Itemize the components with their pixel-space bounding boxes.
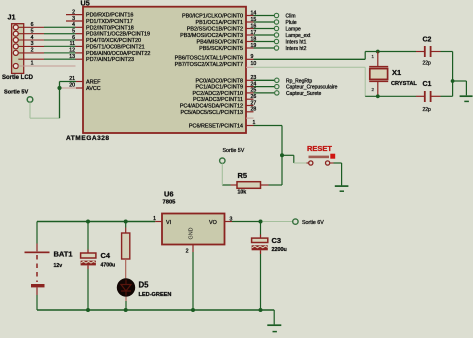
wire Sortie5V right	[30, 117, 60, 119]
U5 pin 6 (PD4) stub	[75, 39, 83, 41]
wire pin 24 to terminal	[254, 86, 276, 88]
U5 pin 5 (PD3) stub	[75, 33, 83, 35]
wire crystal bottom horizontal	[365, 95, 416, 97]
ground (crystal)	[460, 95, 473, 97]
wire XTAL2 to crystal (faint)	[254, 66, 366, 68]
svg-text:PD7/AIN1/PCINT23: PD7/AIN1/PCINT23	[86, 57, 134, 63]
wire bus to ground	[273, 310, 275, 324]
svg-text:28: 28	[251, 107, 257, 113]
U5 pin 28 (PC5) stub	[246, 111, 254, 113]
wire Sortie5V down	[29, 102, 31, 118]
wire J1 pin 1 to U5 (faint)	[18, 65, 75, 67]
terminal node Clim	[274, 13, 278, 17]
capacitor C3	[260, 222, 262, 235]
svg-text:VI: VI	[166, 220, 171, 226]
junction C3 top	[259, 220, 263, 224]
svg-text:PB5/SCK/PCINT5: PB5/SCK/PCINT5	[199, 46, 243, 52]
svg-text:PB3/MOSI/OC2A/PCINT3: PB3/MOSI/OC2A/PCINT3	[180, 33, 243, 39]
crystal X1 pin 2	[377, 81, 379, 96]
wire RESET vertical	[281, 126, 283, 186]
wire ground bus bottom	[37, 309, 274, 311]
svg-text:PD5/T1/OC0B/PCINT21: PD5/T1/OC0B/PCINT21	[86, 44, 145, 50]
svg-text:Inters ht1: Inters ht1	[286, 40, 307, 46]
svg-text:PC5/ADC5/SCL/PCINT13: PC5/ADC5/SCL/PCINT13	[180, 110, 243, 116]
junction right rail	[451, 79, 455, 83]
junction crystal pin1	[376, 50, 380, 54]
svg-text:3: 3	[72, 16, 75, 22]
U5 pin 16 (PB2) stub	[246, 28, 254, 30]
wire pin 17 to terminal	[254, 34, 275, 36]
wire C2 to right rail	[441, 51, 453, 53]
wire pin 19 to terminal	[254, 47, 275, 49]
U5 pin 11 (PD5) stub	[75, 45, 83, 47]
svg-text:Lampe_ext: Lampe_ext	[286, 33, 311, 39]
svg-text:Sortie 6V: Sortie 6V	[302, 220, 324, 226]
wire J1 pin 2 to U5 (green part)	[44, 52, 76, 54]
svg-text:C3: C3	[272, 236, 282, 245]
J1 pin 2 contact	[13, 50, 18, 55]
wire XTAL1 to crystal	[254, 58, 366, 60]
U5 pin 10 XTAL2 stub (faint)	[246, 66, 254, 68]
wire pin 14 to terminal	[254, 15, 275, 17]
svg-text:12v: 12v	[54, 263, 63, 269]
svg-text:2: 2	[186, 249, 189, 255]
wire pin 18 to terminal	[254, 41, 275, 43]
wire XTAL2 jog down (faint)	[364, 67, 366, 96]
svg-text:PC1/ADC1/PCINT9: PC1/ADC1/PCINT9	[196, 85, 243, 91]
wire up to AREF	[59, 82, 61, 119]
microcontroller U5 body	[83, 7, 246, 133]
svg-text:PD3/INT1/OC2B/PCINT19: PD3/INT1/OC2B/PCINT19	[86, 32, 150, 38]
svg-text:J1: J1	[8, 13, 16, 22]
svg-text:10: 10	[251, 61, 257, 67]
wire J1 pin 5 to U5 (green part)	[44, 33, 76, 35]
wire U6 GND down	[192, 252, 194, 310]
wire J1 pin 3 to U5 (green part)	[44, 45, 76, 47]
U5 pin 21 AREF stub	[76, 81, 83, 83]
svg-text:PD0/RXD/PCINT16: PD0/RXD/PCINT16	[86, 13, 133, 19]
wire button to ground	[334, 162, 342, 164]
U5 pin 26 (PC3) stub	[246, 98, 254, 100]
svg-text:C1: C1	[423, 81, 432, 88]
U5 pin 17 (PB3) stub	[246, 34, 254, 36]
svg-text:22p: 22p	[423, 107, 432, 113]
wire AVCC horizontal (faint)	[60, 87, 77, 89]
junction LED bottom	[124, 308, 128, 312]
crystal X1 top plate	[369, 66, 388, 68]
svg-text:CRYSTAL: CRYSTAL	[391, 81, 417, 87]
crystal X1 body	[370, 69, 388, 80]
svg-text:2200u: 2200u	[272, 247, 287, 253]
wire top supply bus	[37, 221, 155, 223]
terminal node Capteur_Crepusculaire	[275, 84, 279, 88]
capacitor C1	[416, 95, 424, 97]
J1 pin 3 contact	[13, 44, 18, 49]
wire J1 pin 6 to U5 (green part)	[44, 26, 76, 28]
wire D5 to ground bus	[125, 297, 127, 301]
terminal node Inters ht1	[274, 39, 278, 43]
svg-text:Capteur_Crepusculaire: Capteur_Crepusculaire	[286, 85, 338, 91]
wire J1 pin 5 to U5 (red part)	[18, 33, 44, 35]
svg-text:Sortie LCD: Sortie LCD	[2, 75, 34, 81]
wire J1 pin 6 to U5 (red part)	[18, 26, 44, 28]
wire pin 16 to terminal	[254, 28, 275, 30]
U6 VO pin stub	[225, 221, 233, 223]
battery BAT1	[36, 222, 38, 244]
capacitor C2	[416, 51, 424, 53]
push button right pin stub	[330, 162, 334, 164]
U5 pin 9 XTAL1 stub	[246, 58, 254, 60]
svg-text:C2: C2	[423, 36, 432, 43]
terminal node Sortie 6V (right)	[293, 219, 298, 224]
svg-text:LED-GREEN: LED-GREEN	[139, 292, 172, 298]
svg-text:PC3/ADC3/PCINT11: PC3/ADC3/PCINT11	[193, 97, 243, 103]
wire J1 pin 4 to U5 (red part)	[18, 39, 44, 41]
J1 pin 6 contact	[13, 25, 18, 30]
svg-text:Pluie: Pluie	[286, 20, 297, 26]
unused pin stub (faint)	[246, 117, 254, 119]
svg-text:PD2/INT0/PCINT18: PD2/INT0/PCINT18	[86, 25, 134, 31]
junction crystal pin2	[376, 94, 380, 98]
svg-text:PC2/ADC2/PCINT10: PC2/ADC2/PCINT10	[193, 91, 243, 97]
svg-text:Lampe: Lampe	[286, 27, 302, 33]
push button left pin stub	[307, 162, 309, 164]
wire to button left contact (faint)	[294, 162, 307, 164]
resistor R5	[222, 184, 230, 186]
svg-text:26: 26	[251, 94, 257, 100]
svg-text:4700u: 4700u	[101, 263, 116, 269]
crystal X1 pin 1	[377, 52, 379, 67]
wire J1 pin 3 to U5 (red part)	[18, 45, 44, 47]
svg-text:U6: U6	[164, 189, 174, 198]
svg-text:27: 27	[251, 100, 257, 106]
svg-text:PB6/TOSC1/XTAL1/PCINT6: PB6/TOSC1/XTAL1/PCINT6	[175, 56, 243, 62]
terminal node Lampe	[274, 26, 278, 30]
U5 pin 27 (PC4) stub	[246, 105, 254, 107]
junction AVCC	[57, 86, 61, 90]
wire XTAL1 jog up	[364, 52, 366, 60]
wire branch to button	[282, 154, 294, 156]
svg-text:ATMEGA328: ATMEGA328	[66, 135, 110, 142]
regulator U6 body	[162, 214, 225, 245]
U5 pin 24 (PC1) stub	[246, 86, 254, 88]
svg-text:D5: D5	[139, 281, 150, 290]
svg-text:22p: 22p	[423, 61, 432, 67]
svg-text:PC4/ADC4/SDA/PCINT12: PC4/ADC4/SDA/PCINT12	[180, 104, 243, 110]
U5 pin 13 (PD7) stub	[75, 58, 83, 60]
wire J1 pin 4 to U5 (green part)	[44, 39, 76, 41]
svg-text:PB7/TOSC2/XTAL2/PCINT7: PB7/TOSC2/XTAL2/PCINT7	[175, 62, 243, 68]
svg-text:Rp_RegRtp: Rp_RegRtp	[286, 78, 312, 84]
terminal node Sortie 5V (middle)	[220, 158, 225, 163]
svg-text:AVCC: AVCC	[86, 86, 101, 92]
wire VO to C3 and terminal	[232, 221, 261, 223]
connector J1 body	[12, 24, 24, 74]
svg-text:PC0/ADC0/PCINT8: PC0/ADC0/PCINT8	[196, 78, 243, 84]
terminal node Sortie 5V (left)	[27, 97, 33, 103]
svg-text:X1: X1	[392, 68, 401, 77]
svg-text:PB0/ICP1/CLKO/PCINT0: PB0/ICP1/CLKO/PCINT0	[182, 14, 243, 20]
svg-text:GND: GND	[189, 227, 195, 239]
junction U6 GND bottom	[191, 308, 195, 312]
push button bar	[309, 156, 330, 159]
junction R-LED top	[124, 220, 128, 224]
U6 GND pin stub	[192, 245, 194, 253]
junction C4 top	[86, 220, 90, 224]
wire rail to ground	[453, 80, 467, 82]
svg-text:Inters ht2: Inters ht2	[286, 46, 307, 52]
svg-text:PB2/SS/OC1B/PCINT2: PB2/SS/OC1B/PCINT2	[187, 27, 243, 33]
LED D5	[117, 278, 135, 296]
U5 pin 23 (PC0) stub	[246, 79, 254, 81]
U6 VI pin stub	[155, 221, 162, 223]
svg-text:BAT1: BAT1	[54, 250, 73, 259]
U5 pin 4 (PD2) stub	[75, 26, 83, 28]
terminal node Capteur_Surete	[275, 91, 279, 95]
svg-text:AREF: AREF	[86, 80, 101, 86]
U5 pin 19 (PB5) stub	[246, 47, 254, 49]
wire J1 pin 2 to U5 (red part)	[18, 52, 44, 54]
push button right contact	[326, 161, 330, 165]
terminal node Pluie	[274, 20, 278, 24]
svg-text:Sortie 5V: Sortie 5V	[4, 90, 29, 96]
U5 pin 20 AVCC stub	[76, 87, 83, 89]
svg-text:2: 2	[72, 9, 75, 15]
junction RESET branch	[280, 153, 284, 157]
resistor (LED series)	[125, 222, 127, 228]
wire right rail vertical	[452, 52, 454, 97]
svg-text:RESET: RESET	[307, 144, 332, 153]
svg-text:Sortie 5V: Sortie 5V	[223, 148, 245, 154]
J1 pin 5 contact	[13, 31, 18, 36]
wire AREF horizontal	[60, 81, 77, 83]
svg-text:Clim: Clim	[286, 14, 296, 20]
wire pin 15 to terminal	[254, 21, 275, 23]
J1 pin 1 contact	[13, 64, 18, 69]
J1 pin 4 contact	[13, 38, 18, 43]
terminal node Rp_RegRtp	[275, 78, 279, 82]
wire C1 to right rail	[441, 95, 453, 97]
svg-text:PD4/T0/XCK/PCINT20: PD4/T0/XCK/PCINT20	[86, 38, 141, 44]
junction C4 bottom	[86, 308, 90, 312]
svg-text:PD6/AIN0/OC0A/PCINT22: PD6/AIN0/OC0A/PCINT22	[86, 51, 150, 57]
svg-text:U5: U5	[81, 0, 90, 7]
wire crystal top horizontal	[365, 51, 416, 53]
junction C3 bottom	[259, 308, 263, 312]
terminal node Lampe_ext	[274, 33, 278, 37]
push button actuator red cap	[330, 154, 335, 159]
U5 pin 2 (PD0) stub	[66, 14, 83, 16]
wire pin 25 to terminal	[254, 92, 276, 94]
svg-text:R5: R5	[238, 171, 248, 180]
capacitor C4	[87, 222, 89, 250]
terminal node Inters ht2	[274, 46, 278, 50]
U5 pin 15 (PB1) stub	[246, 21, 254, 23]
svg-text:10k: 10k	[238, 190, 247, 196]
U5 pin 1 PC6/RESET stub	[246, 125, 254, 127]
U5 pin 25 (PC2) stub	[246, 92, 254, 94]
push button left contact	[309, 161, 313, 165]
U5 pin 3 (PD1) stub	[66, 20, 83, 22]
svg-text:VO: VO	[209, 220, 217, 226]
wire pin 23 to terminal	[254, 79, 276, 81]
svg-text:PD1/TXD/PCINT17: PD1/TXD/PCINT17	[86, 19, 133, 25]
U5 pin 18 (PB4) stub	[246, 41, 254, 43]
wire pin1 to right	[254, 125, 283, 127]
U5 pin 14 (PB0) stub	[246, 15, 254, 17]
ground (supply)	[267, 324, 281, 326]
svg-text:PB1/OC1A/PCINT1: PB1/OC1A/PCINT1	[196, 20, 243, 26]
svg-text:C4: C4	[101, 251, 111, 260]
wire terminal to R5	[221, 163, 223, 185]
svg-text:7805: 7805	[163, 200, 177, 206]
ground (RESET)	[335, 185, 349, 187]
wire row 13 (no contact)	[18, 58, 44, 60]
svg-text:PB4/MISO/PCINT4: PB4/MISO/PCINT4	[196, 40, 243, 46]
svg-text:Capteur_Surete: Capteur_Surete	[286, 91, 322, 97]
crystal X1 bottom plate	[369, 80, 388, 82]
U5 pin 12 (PD6) stub	[75, 52, 83, 54]
svg-text:PC6/RESET/PCINT14: PC6/RESET/PCINT14	[189, 124, 243, 130]
